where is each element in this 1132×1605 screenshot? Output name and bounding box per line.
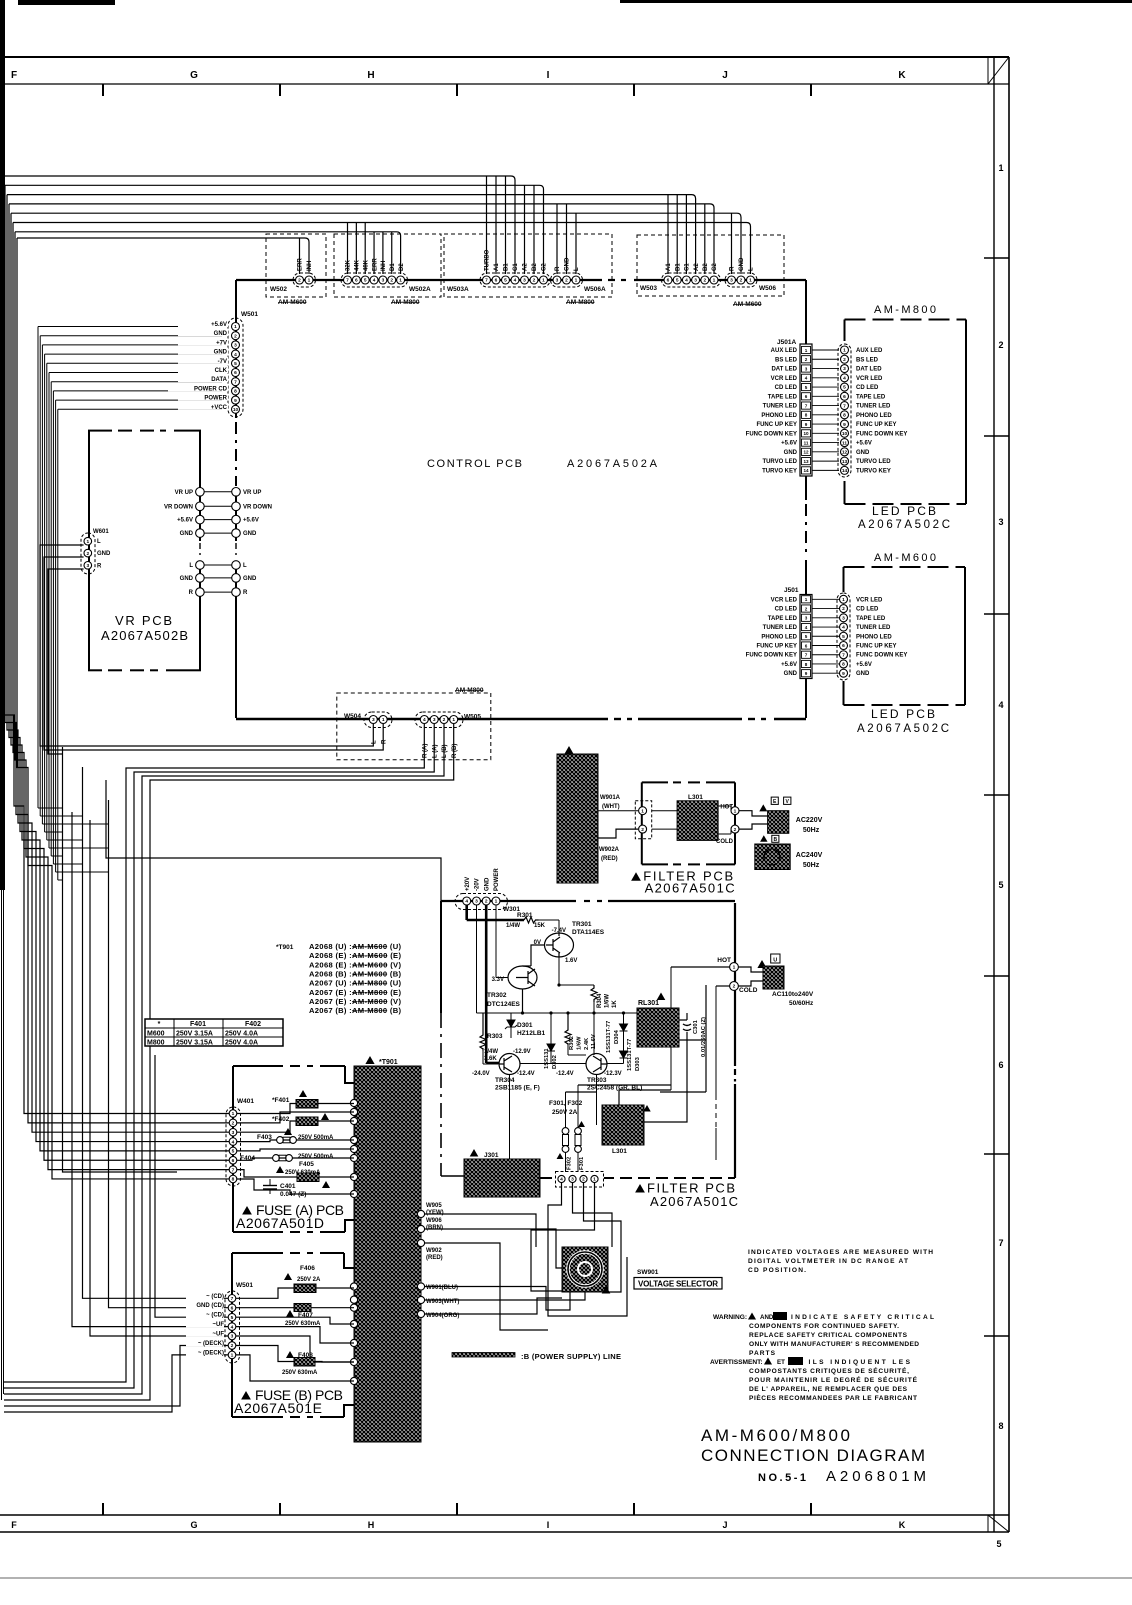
svg-text:2: 2: [805, 606, 808, 611]
svg-text:6: 6: [231, 1305, 234, 1311]
svg-text:7: 7: [843, 403, 846, 409]
svg-text:R: R: [243, 590, 248, 596]
svg-text:9: 9: [805, 671, 808, 676]
svg-text:F406: F406: [300, 1265, 315, 1272]
svg-text:1: 1: [733, 965, 736, 971]
svg-text:R304: R304: [597, 993, 603, 1008]
svg-text:5: 5: [231, 1315, 234, 1321]
svg-text:W502: W502: [270, 286, 287, 293]
svg-text:14: 14: [842, 468, 848, 474]
svg-text:2: 2: [703, 278, 706, 284]
svg-text:VOLTAGE SELECTOR: VOLTAGE SELECTOR: [638, 1280, 718, 1289]
svg-text:~UF: ~UF: [212, 1332, 224, 1338]
svg-text:FUNC DOWN KEY: FUNC DOWN KEY: [856, 431, 907, 437]
svg-text:CD LED: CD LED: [856, 385, 879, 391]
svg-text:ERR: ERR: [298, 258, 304, 271]
svg-text:U: U: [773, 957, 777, 963]
svg-text:*F401: *F401: [272, 1097, 290, 1104]
svg-text:7: 7: [232, 1167, 235, 1173]
svg-text:3: 3: [372, 717, 375, 723]
svg-text:R: R: [381, 739, 387, 744]
svg-text:1SS131T-77: 1SS131T-77: [627, 1039, 633, 1071]
svg-text:2.4K: 2.4K: [584, 1037, 590, 1050]
svg-text:1/6W: 1/6W: [605, 994, 611, 1008]
svg-text:CD LED: CD LED: [775, 607, 798, 613]
svg-text:(WHT): (WHT): [602, 804, 620, 810]
svg-text:A2067A502B: A2067A502B: [101, 628, 188, 643]
svg-text:2SB1185 (E, F): 2SB1185 (E, F): [495, 1085, 540, 1092]
svg-text:VR DOWN: VR DOWN: [164, 504, 193, 510]
svg-text:2: 2: [234, 333, 237, 339]
svg-text:AC240V: AC240V: [796, 852, 823, 859]
svg-text:1: 1: [542, 278, 545, 284]
svg-text:VCR LED: VCR LED: [771, 376, 798, 382]
svg-text:AM-M600/M800: AM-M600/M800: [701, 1426, 850, 1445]
svg-text:3: 3: [694, 278, 697, 284]
svg-text:AC110to240V: AC110to240V: [772, 991, 814, 998]
svg-text:15K: 15K: [534, 923, 546, 929]
svg-text:D303: D303: [635, 1056, 641, 1071]
svg-text:-20V: -20V: [475, 878, 481, 891]
svg-text:F404: F404: [240, 1155, 255, 1162]
svg-text:32K: 32K: [346, 259, 352, 271]
svg-text:GND: GND: [484, 877, 490, 891]
svg-text:+5.6V: +5.6V: [781, 441, 797, 447]
svg-text:1: 1: [842, 597, 845, 603]
svg-text:4: 4: [234, 352, 237, 358]
svg-text:6: 6: [234, 370, 237, 376]
svg-text:BS LED: BS LED: [856, 357, 879, 363]
svg-text:11: 11: [804, 440, 809, 445]
svg-text:A2067A501C: A2067A501C: [650, 1194, 738, 1209]
svg-text:L (B): L (B): [442, 744, 448, 758]
svg-text:4: 4: [231, 1324, 234, 1330]
svg-text:, ILS INDIQUENT LES: , ILS INDIQUENT LES: [800, 1359, 911, 1366]
svg-text:1: 1: [593, 1177, 596, 1183]
svg-text:5: 5: [364, 278, 367, 284]
svg-text:I: I: [547, 70, 550, 81]
svg-text:ERR: ERR: [372, 258, 378, 271]
svg-text:4: 4: [423, 717, 426, 723]
svg-text:2: 2: [443, 717, 446, 723]
svg-text:R: R: [97, 563, 102, 569]
svg-text:L (A): L (A): [432, 744, 438, 758]
svg-text:9: 9: [843, 422, 846, 428]
svg-text:W905: W905: [426, 1203, 442, 1209]
svg-text:+VCC: +VCC: [211, 405, 228, 411]
svg-text:TUNER LED: TUNER LED: [856, 625, 891, 631]
svg-text:AVERTISSMENT:: AVERTISSMENT:: [710, 1359, 763, 1366]
svg-text:COLD: COLD: [716, 839, 734, 845]
svg-text:2: 2: [485, 899, 488, 905]
svg-text:W902A: W902A: [599, 847, 620, 853]
svg-text:250V 3.15A: 250V 3.15A: [176, 1031, 213, 1038]
svg-text:GND: GND: [180, 531, 194, 537]
svg-text:AM-M600: AM-M600: [278, 299, 307, 306]
svg-text:GND: GND: [180, 576, 194, 582]
svg-text:1: 1: [805, 597, 808, 602]
svg-text:3: 3: [842, 615, 845, 621]
svg-text:DTA114ES: DTA114ES: [572, 929, 605, 936]
svg-text:F407: F407: [298, 1312, 313, 1319]
svg-text:1: 1: [86, 539, 89, 545]
svg-text:12: 12: [842, 450, 848, 456]
svg-text:AM-M600: AM-M600: [733, 301, 762, 308]
svg-text:4: 4: [373, 278, 376, 284]
svg-text:C2: C2: [542, 263, 548, 271]
svg-text:*T901: *T901: [276, 944, 294, 951]
svg-text:9: 9: [234, 398, 237, 404]
svg-text:A2067 (U) :AM-M800 (U): A2067 (U) :AM-M800 (U): [309, 979, 401, 988]
svg-text:50/60Hz: 50/60Hz: [789, 1000, 814, 1007]
svg-text:AND: AND: [760, 1314, 774, 1321]
svg-text:J501A: J501A: [777, 339, 796, 346]
svg-text:-12.4V: -12.4V: [556, 1071, 574, 1077]
svg-text:F301: F301: [579, 1156, 585, 1170]
svg-text:W504: W504: [344, 713, 361, 720]
svg-text:GND: GND: [97, 551, 111, 557]
svg-text:7: 7: [234, 379, 237, 385]
svg-text:J501: J501: [784, 587, 799, 594]
svg-text:9: 9: [805, 422, 808, 427]
svg-text:H: H: [368, 1520, 375, 1530]
svg-text:6: 6: [805, 394, 808, 399]
svg-text:-12.9V: -12.9V: [513, 1049, 531, 1055]
svg-text:CONNECTION DIAGRAM: CONNECTION DIAGRAM: [701, 1446, 925, 1465]
svg-text:R (A): R (A): [423, 744, 429, 758]
svg-text:3: 3: [523, 278, 526, 284]
svg-text:R303: R303: [487, 1033, 503, 1040]
svg-text:HOT: HOT: [717, 957, 731, 964]
svg-text:8: 8: [805, 662, 808, 667]
svg-text:AM-M800: AM-M800: [874, 304, 936, 316]
svg-text:7: 7: [485, 278, 488, 284]
svg-text:1: 1: [713, 278, 716, 284]
svg-text:2: 2: [231, 1343, 234, 1349]
svg-text:7: 7: [998, 1238, 1003, 1248]
svg-text:3: 3: [556, 278, 559, 284]
svg-text:B2: B2: [703, 263, 709, 271]
svg-text:TURVO KEY: TURVO KEY: [762, 468, 797, 474]
svg-text:POWER: POWER: [494, 868, 500, 891]
svg-text:PIÈCES RECOMMANDEES PAR LE: PIÈCES RECOMMANDEES PAR LE FABRICANT: [749, 1393, 917, 1402]
svg-text:6: 6: [495, 278, 498, 284]
svg-text:C2: C2: [712, 263, 718, 271]
svg-text:GND: GND: [214, 331, 228, 337]
svg-text:4: 4: [842, 625, 845, 631]
svg-text:50Hz: 50Hz: [803, 827, 820, 834]
svg-text:K: K: [899, 1520, 906, 1530]
svg-text:WARNING:: WARNING:: [713, 1314, 747, 1321]
svg-text:6: 6: [805, 643, 808, 648]
svg-text:ET: ET: [777, 1359, 785, 1366]
svg-text:-11.6V: -11.6V: [591, 1034, 597, 1051]
svg-text:J: J: [722, 1520, 727, 1530]
svg-text:VCR LED: VCR LED: [771, 597, 798, 603]
svg-text:F405: F405: [299, 1161, 314, 1168]
svg-text:2: 2: [733, 984, 736, 990]
svg-text:~ (DECK): ~ (DECK): [198, 1350, 224, 1356]
svg-text:R: R: [555, 266, 561, 271]
svg-text:3: 3: [234, 343, 237, 349]
svg-text:(RED): (RED): [426, 1255, 443, 1261]
svg-text:L: L: [372, 740, 378, 744]
svg-text:A2067A502C: A2067A502C: [857, 723, 949, 735]
svg-text:TAPE LED: TAPE LED: [768, 616, 798, 622]
svg-text:6: 6: [232, 1158, 235, 1164]
svg-text:~ (DECK): ~ (DECK): [198, 1341, 224, 1347]
svg-text:3.6K: 3.6K: [484, 1056, 497, 1062]
svg-text:CD LED: CD LED: [775, 385, 798, 391]
svg-text:FUNC UP KEY: FUNC UP KEY: [856, 422, 897, 428]
svg-text:RL301: RL301: [638, 1000, 659, 1007]
svg-text:L301: L301: [612, 1148, 627, 1155]
svg-text:250V 4.0A: 250V 4.0A: [225, 1031, 258, 1038]
svg-text:TURBO: TURBO: [485, 249, 491, 271]
svg-text:AM-M800: AM-M800: [566, 299, 595, 306]
svg-text:7: 7: [842, 652, 845, 658]
svg-text:W502A: W502A: [409, 286, 431, 293]
svg-text:(BRN): (BRN): [426, 1225, 443, 1231]
svg-text:13: 13: [842, 459, 848, 465]
svg-text:5: 5: [842, 634, 845, 640]
svg-text:GND: GND: [784, 671, 798, 677]
svg-text:A2068 (B) :AM-M600 (B): A2068 (B) :AM-M600 (B): [309, 969, 401, 978]
svg-text:FUNC UP KEY: FUNC UP KEY: [756, 644, 797, 650]
svg-text:D304: D304: [614, 1029, 620, 1044]
svg-text:5: 5: [234, 361, 237, 367]
svg-text:5: 5: [996, 1539, 1001, 1549]
svg-text:+5.6V: +5.6V: [856, 662, 872, 668]
svg-text:8: 8: [232, 1177, 235, 1183]
svg-text:J301: J301: [484, 1152, 499, 1159]
svg-text:INH: INH: [381, 261, 387, 271]
svg-text:1: 1: [452, 717, 455, 723]
svg-text:14: 14: [803, 468, 809, 473]
svg-text:1: 1: [234, 324, 237, 330]
svg-text:GND: GND: [784, 450, 798, 456]
svg-text:1: 1: [641, 808, 644, 814]
svg-text:3: 3: [231, 1334, 234, 1340]
svg-text:A2067A502C: A2067A502C: [858, 519, 950, 531]
svg-text:FUNC DOWN KEY: FUNC DOWN KEY: [746, 431, 797, 437]
svg-text:8: 8: [842, 662, 845, 668]
svg-text:3: 3: [232, 1130, 235, 1136]
svg-text:48K: 48K: [363, 259, 369, 271]
svg-text:3: 3: [86, 563, 89, 569]
svg-text:(YEW): (YEW): [426, 1210, 444, 1216]
svg-text:*T901: *T901: [379, 1059, 398, 1066]
svg-text:+5.6V: +5.6V: [781, 662, 797, 668]
svg-text:PHONO LED: PHONO LED: [761, 413, 797, 419]
svg-text:PHONO LED: PHONO LED: [856, 634, 892, 640]
svg-text:A2067A501E: A2067A501E: [234, 1400, 322, 1416]
svg-text:1: 1: [232, 1111, 235, 1117]
svg-text:C301: C301: [693, 1019, 699, 1034]
svg-text:GND (CD): GND (CD): [196, 1303, 224, 1309]
svg-text:L: L: [749, 267, 755, 271]
svg-text:COMPOSTANTS CRITIQUES DE SÉ: COMPOSTANTS CRITIQUES DE SÉCURITÉ,: [749, 1366, 909, 1375]
svg-text:13: 13: [803, 459, 809, 464]
svg-text:VCR LED: VCR LED: [856, 597, 883, 603]
svg-text:GND: GND: [243, 576, 257, 582]
svg-text:TR304: TR304: [495, 1077, 515, 1084]
svg-text:A1: A1: [666, 263, 672, 271]
svg-text:HOT: HOT: [720, 805, 733, 811]
svg-text:M600: M600: [147, 1031, 165, 1038]
svg-text:W501: W501: [236, 1282, 253, 1289]
svg-text:CLK: CLK: [215, 368, 228, 374]
svg-text:250V 630mA: 250V 630mA: [282, 1370, 318, 1376]
svg-text:6: 6: [355, 278, 358, 284]
svg-text:B: B: [773, 837, 777, 843]
svg-text:CD POSITION.: CD POSITION.: [748, 1267, 806, 1274]
svg-text:TUNER LED: TUNER LED: [763, 404, 798, 410]
svg-text:2: 2: [390, 278, 393, 284]
svg-text:TUNER LED: TUNER LED: [763, 625, 798, 631]
svg-text:2: 2: [740, 278, 743, 284]
svg-text:W901A: W901A: [600, 795, 621, 801]
svg-text:5: 5: [676, 278, 679, 284]
svg-text:5: 5: [504, 278, 507, 284]
svg-text:W506: W506: [759, 285, 776, 292]
svg-text:PHONO LED: PHONO LED: [856, 413, 892, 419]
svg-text:10: 10: [233, 407, 239, 413]
svg-text:AM-M800: AM-M800: [391, 299, 420, 306]
svg-text:DAT LED: DAT LED: [856, 367, 882, 373]
svg-text:L: L: [574, 267, 580, 271]
svg-text:250V 3.15A: 250V 3.15A: [176, 1040, 213, 1047]
svg-text:1/6W: 1/6W: [577, 1036, 583, 1050]
svg-text:B1: B1: [675, 263, 681, 271]
svg-text:POWER: POWER: [204, 396, 227, 402]
svg-text:5: 5: [998, 880, 1003, 890]
svg-text:BS LED: BS LED: [775, 357, 798, 363]
svg-text:A2067 (E) :AM-M800 (V): A2067 (E) :AM-M800 (V): [309, 997, 401, 1006]
svg-text:4: 4: [843, 375, 846, 381]
svg-text:F408: F408: [298, 1352, 313, 1359]
svg-text:VR UP: VR UP: [175, 490, 193, 496]
svg-text:D2: D2: [399, 263, 405, 271]
svg-text:C401: C401: [280, 1183, 296, 1190]
svg-text:W401: W401: [237, 1098, 254, 1105]
svg-text:2: 2: [805, 357, 808, 362]
svg-text:R: R: [189, 590, 194, 596]
svg-text:8: 8: [234, 389, 237, 395]
svg-text:~ (CD): ~ (CD): [206, 1294, 224, 1300]
svg-text:-12.3V: -12.3V: [604, 1071, 622, 1077]
svg-text:TUNER LED: TUNER LED: [856, 404, 891, 410]
svg-text:VR UP: VR UP: [243, 490, 261, 496]
svg-text:1: 1: [734, 808, 737, 814]
svg-text:A2068 (E) :AM-M600 (V): A2068 (E) :AM-M600 (V): [309, 960, 401, 969]
svg-text:50Hz: 50Hz: [803, 862, 820, 869]
svg-text:F302: F302: [567, 1157, 573, 1170]
svg-text:F: F: [11, 70, 17, 81]
svg-text:3: 3: [998, 517, 1003, 527]
svg-text:2: 2: [641, 827, 644, 833]
svg-text:A2067A501D: A2067A501D: [236, 1215, 324, 1231]
svg-text:W505: W505: [464, 714, 481, 721]
svg-text:6: 6: [998, 1060, 1003, 1070]
svg-text:A2068 (E) :AM-M600 (E): A2068 (E) :AM-M600 (E): [309, 951, 401, 960]
svg-text:5: 5: [232, 1149, 235, 1155]
svg-text:1: 1: [308, 278, 311, 284]
svg-text:3: 3: [571, 1177, 574, 1183]
svg-text:~UF: ~UF: [212, 1322, 224, 1328]
svg-text:CONTROL PCB: CONTROL PCB: [427, 458, 522, 470]
svg-text:GND: GND: [214, 350, 228, 356]
svg-text:1: 1: [575, 278, 578, 284]
svg-text:TAPE LED: TAPE LED: [856, 616, 886, 622]
svg-text:+5.6V: +5.6V: [211, 322, 227, 328]
svg-text:DATA: DATA: [211, 377, 227, 383]
svg-text:TAPE LED: TAPE LED: [856, 394, 886, 400]
svg-text:10: 10: [803, 431, 809, 436]
svg-text:W601: W601: [93, 529, 109, 535]
svg-text:FUNC DOWN KEY: FUNC DOWN KEY: [856, 653, 907, 659]
svg-text:7: 7: [805, 653, 808, 658]
svg-text:1: 1: [749, 278, 752, 284]
svg-text:VR DOWN: VR DOWN: [243, 504, 272, 510]
svg-text:*F402: *F402: [272, 1116, 290, 1123]
svg-text:A2067A501C: A2067A501C: [645, 881, 735, 896]
svg-text:1: 1: [231, 1353, 234, 1359]
svg-text:R (B): R (B): [452, 744, 458, 758]
svg-text:FUNC DOWN KEY: FUNC DOWN KEY: [746, 653, 797, 659]
svg-text:4: 4: [805, 376, 808, 381]
svg-text:3: 3: [433, 717, 436, 723]
svg-text:0.047 (Z): 0.047 (Z): [280, 1191, 306, 1198]
svg-text:1SS131T-77: 1SS131T-77: [606, 1021, 612, 1053]
svg-text:A2067 (E) :AM-M800 (E): A2067 (E) :AM-M800 (E): [309, 988, 401, 997]
svg-text:1: 1: [382, 717, 385, 723]
svg-text:W902: W902: [426, 1248, 442, 1254]
svg-text:PARTS: PARTS: [749, 1350, 776, 1357]
svg-text:POUR MAINTENIR LE DEGRÉ DE: POUR MAINTENIR LE DEGRÉ DE SÉCURITÉ: [749, 1375, 918, 1384]
svg-text:*: *: [158, 1021, 161, 1028]
svg-text:W501: W501: [241, 311, 258, 318]
svg-text:3: 3: [805, 366, 808, 371]
svg-text:TR301: TR301: [572, 921, 592, 928]
svg-text:3: 3: [475, 899, 478, 905]
svg-text:~ (CD): ~ (CD): [206, 1313, 224, 1319]
svg-text:G: G: [190, 1520, 197, 1530]
svg-text:GND: GND: [856, 450, 870, 456]
svg-text:AM-M600: AM-M600: [874, 552, 936, 564]
svg-text:5: 5: [805, 634, 808, 639]
svg-text:1: 1: [998, 163, 1003, 173]
svg-text:10: 10: [842, 431, 848, 437]
svg-text:B1: B1: [504, 263, 510, 271]
svg-text:FUNC UP KEY: FUNC UP KEY: [756, 422, 797, 428]
svg-text:2: 2: [232, 1121, 235, 1127]
svg-text:7: 7: [231, 1296, 234, 1302]
svg-text:K: K: [898, 70, 906, 81]
svg-text:2: 2: [565, 278, 568, 284]
svg-text:2: 2: [734, 827, 737, 833]
svg-text:6: 6: [843, 394, 846, 400]
svg-text:VCR LED: VCR LED: [856, 376, 883, 382]
svg-text:POWER CD: POWER CD: [194, 386, 228, 392]
svg-text:9: 9: [842, 671, 845, 677]
svg-text:GND: GND: [565, 257, 571, 271]
svg-text:GND: GND: [856, 671, 870, 677]
svg-text:GND: GND: [739, 257, 745, 271]
svg-text:A2067A502A: A2067A502A: [567, 458, 658, 470]
svg-text:D301: D301: [517, 1022, 533, 1029]
svg-text:3: 3: [805, 616, 808, 621]
